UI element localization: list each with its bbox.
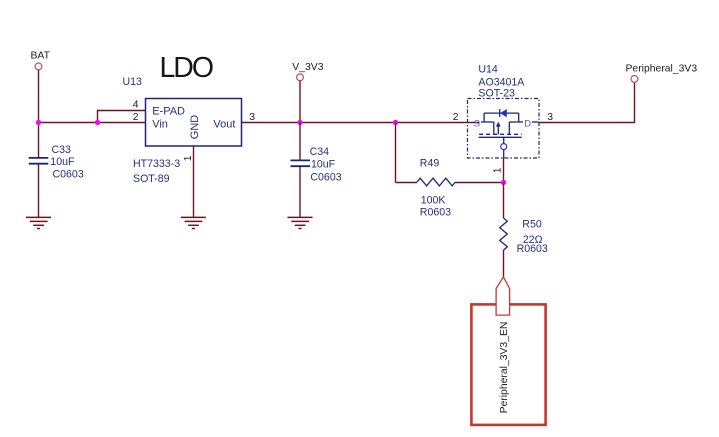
- svg-text:Peripheral_3V3_EN: Peripheral_3V3_EN: [499, 322, 510, 414]
- svg-text:Peripheral_3V3: Peripheral_3V3: [626, 63, 698, 74]
- svg-text:3: 3: [249, 112, 255, 123]
- svg-text:LDO: LDO: [160, 52, 215, 84]
- port Peripheral_3V3_EN: [496, 277, 510, 315]
- capacitor C34: [291, 160, 311, 166]
- wire U14 drain to terminal: [539, 82, 635, 122]
- svg-text:R0603: R0603: [420, 206, 451, 218]
- ground under U13: [181, 217, 206, 228]
- terminal Peripheral_3V3: [631, 76, 638, 83]
- resistor R50: [500, 218, 508, 250]
- svg-text:U13: U13: [123, 76, 143, 88]
- wire V_3V3 down: [299, 81, 301, 123]
- svg-text:C0603: C0603: [53, 168, 84, 180]
- channel arrow: [496, 122, 501, 127]
- capacitor C33: [29, 158, 49, 164]
- svg-text:100K: 100K: [421, 195, 446, 207]
- svg-text:1: 1: [183, 155, 194, 161]
- svg-text:2: 2: [453, 112, 459, 123]
- junction at V_3V3: [297, 120, 302, 125]
- wire junction to C34: [299, 123, 301, 161]
- junction at R49 branch: [393, 120, 398, 125]
- svg-text:V_3V3: V_3V3: [292, 62, 323, 73]
- wire R49 right to junction: [455, 182, 503, 184]
- ground under C33: [26, 217, 51, 228]
- junction at E-PAD branch: [95, 120, 100, 125]
- svg-text:Vin: Vin: [152, 118, 168, 130]
- svg-text:E-PAD: E-PAD: [152, 105, 185, 117]
- transistor U14 PMOS symbol: [479, 109, 539, 158]
- resistor R49: [417, 178, 455, 186]
- junction at gate/R50: [501, 180, 506, 185]
- wire R50 to port: [503, 250, 505, 277]
- ground under C34: [288, 217, 313, 228]
- terminal BAT: [35, 63, 42, 70]
- svg-text:D: D: [524, 118, 531, 129]
- svg-text:R50: R50: [522, 219, 542, 231]
- transistor U14 dashed outline: [468, 99, 540, 159]
- svg-text:10uF: 10uF: [50, 156, 75, 168]
- body diode arrow: [500, 109, 507, 117]
- wire C34 to ground: [299, 167, 301, 217]
- svg-text:3: 3: [547, 112, 553, 123]
- junction at BAT: [36, 120, 41, 125]
- wire to R49 left: [396, 182, 418, 184]
- svg-text:AO3401A: AO3401A: [478, 76, 525, 88]
- wire Vout to U14 source: [242, 122, 480, 124]
- wire U14 gate down to junction: [503, 158, 505, 183]
- svg-text:C0603: C0603: [310, 172, 341, 184]
- svg-text:C33: C33: [52, 144, 72, 156]
- wire stub to E-PAD pin 4: [98, 111, 147, 123]
- wire U13 GND pin to ground: [193, 146, 195, 217]
- wire BAT vertical: [38, 70, 40, 157]
- svg-text:S: S: [474, 118, 480, 129]
- wire down to R49: [395, 123, 397, 183]
- svg-text:GND: GND: [189, 115, 201, 140]
- svg-text:4: 4: [133, 100, 139, 111]
- gate bubble G: [501, 144, 507, 150]
- svg-text:R0603: R0603: [517, 243, 548, 255]
- wire junction to R50: [503, 183, 505, 219]
- sheet symbol red box: [471, 304, 545, 425]
- svg-text:HT7333-3: HT7333-3: [133, 158, 180, 170]
- svg-text:C34: C34: [310, 146, 330, 158]
- wire C33 to ground: [38, 165, 40, 218]
- svg-text:SOT-23: SOT-23: [478, 88, 515, 100]
- IC U13 body: [146, 99, 242, 147]
- svg-text:Vout: Vout: [213, 118, 235, 130]
- svg-text:U14: U14: [478, 64, 498, 76]
- wire main horizontal BAT to U13 Vin: [39, 122, 147, 124]
- svg-text:R49: R49: [420, 158, 440, 170]
- svg-text:SOT-89: SOT-89: [133, 173, 170, 185]
- svg-text:BAT: BAT: [31, 50, 51, 61]
- svg-text:1: 1: [493, 167, 504, 173]
- terminal V_3V3: [297, 74, 304, 81]
- svg-text:10uF: 10uF: [311, 159, 336, 171]
- svg-text:2: 2: [133, 112, 139, 123]
